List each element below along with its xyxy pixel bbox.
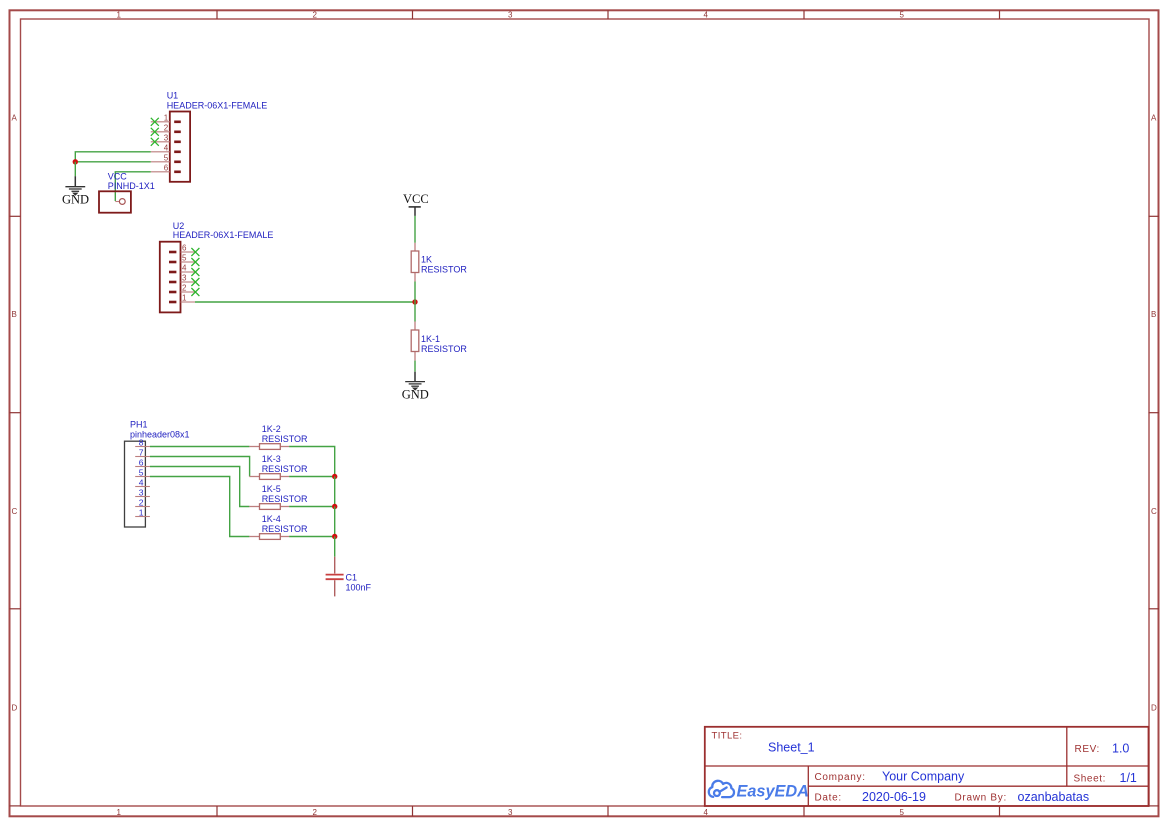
svg-text:3: 3 <box>139 487 144 497</box>
svg-text:HEADER-06X1-FEMALE: HEADER-06X1-FEMALE <box>167 101 268 111</box>
title block frame <box>705 727 1149 806</box>
svg-text:pinheader08x1: pinheader08x1 <box>130 430 190 440</box>
svg-text:1: 1 <box>117 11 122 20</box>
svg-text:5: 5 <box>139 467 144 477</box>
svg-text:B: B <box>1151 310 1156 319</box>
svg-text:Date:: Date: <box>815 792 842 803</box>
1K-5 label <box>262 484 308 504</box>
1K-2 label <box>262 424 308 444</box>
svg-text:D: D <box>1151 704 1157 713</box>
svg-text:1: 1 <box>117 808 122 817</box>
svg-text:RESISTOR: RESISTOR <box>262 524 308 534</box>
svg-text:5: 5 <box>164 153 169 162</box>
PH1 reference label <box>130 420 190 440</box>
svg-text:1/1: 1/1 <box>1120 771 1137 785</box>
no-connect X marks U1 pins 1-3 <box>151 118 159 146</box>
ground symbol right <box>405 372 425 391</box>
1K-3 label <box>262 454 308 474</box>
wire resistor 1K-4 to bus <box>289 536 335 538</box>
no-connect X marks U2 pins 2-6 <box>191 248 199 296</box>
svg-text:HEADER-06X1-FEMALE: HEADER-06X1-FEMALE <box>173 230 274 240</box>
svg-text:EasyEDA: EasyEDA <box>737 783 809 801</box>
connector U1 HEADER-06X1-FEMALE <box>151 112 190 182</box>
connector PH1 pinheader08x1 <box>125 437 150 527</box>
svg-text:U1: U1 <box>167 91 179 101</box>
svg-text:Drawn By:: Drawn By: <box>955 792 1007 803</box>
svg-text:1K-1: 1K-1 <box>421 334 440 344</box>
svg-text:Sheet:: Sheet: <box>1074 774 1107 785</box>
C1 label <box>346 573 372 593</box>
svg-text:C: C <box>12 507 18 516</box>
svg-text:A: A <box>1151 114 1157 123</box>
junction divider node <box>412 299 417 304</box>
svg-text:Sheet_1: Sheet_1 <box>768 741 815 755</box>
wire GND node down <box>74 162 76 176</box>
wire bus segment 1 <box>334 477 336 507</box>
wire resistor 1K-2 to bus top <box>289 447 335 477</box>
wire resistor 1K-5 to bus <box>289 506 335 508</box>
junction bus node 3 <box>332 534 337 539</box>
svg-text:TITLE:: TITLE: <box>712 731 743 742</box>
svg-text:1K-3: 1K-3 <box>262 454 281 464</box>
wire bus to capacitor C1 <box>334 537 336 557</box>
svg-text:REV:: REV: <box>1075 744 1100 755</box>
wire resistor 1K to divider node <box>414 282 416 303</box>
wire resistor 1K-1 to ground <box>414 361 416 372</box>
svg-text:1K-2: 1K-2 <box>262 424 281 434</box>
resistor 1K <box>411 243 419 282</box>
svg-text:6: 6 <box>182 244 187 253</box>
wire bus segment 2 <box>334 507 336 537</box>
resistor 1K-4 <box>249 534 289 540</box>
wire U1 pin5 to GND node <box>75 161 151 163</box>
wire PH1 pin7 to resistor 1K-3 <box>150 457 250 477</box>
svg-text:GND: GND <box>402 388 429 402</box>
resistor 1K-5 <box>249 504 289 510</box>
svg-text:1K: 1K <box>421 255 432 265</box>
svg-text:1K-5: 1K-5 <box>262 484 281 494</box>
svg-text:2: 2 <box>139 497 144 507</box>
svg-text:RESISTOR: RESISTOR <box>262 494 308 504</box>
svg-text:5: 5 <box>900 808 905 817</box>
svg-text:1: 1 <box>182 294 187 303</box>
wire resistor 1K-3 to bus <box>289 476 335 478</box>
resistor 1K-2 <box>249 444 289 450</box>
VCC PINHD-1X1 label <box>108 172 155 192</box>
resistor 1K-1 <box>411 322 419 361</box>
svg-text:1: 1 <box>139 507 144 517</box>
wire PH1 pin6 to resistor 1K-5 <box>150 467 250 507</box>
svg-text:C1: C1 <box>346 573 358 583</box>
wire U1 pin6 down to VCC pin header <box>115 172 151 201</box>
svg-text:VCC: VCC <box>108 172 128 182</box>
wire PH1 pin8 to resistor 1K-2 <box>150 446 250 448</box>
wire PH1 pin5 to resistor 1K-4 <box>150 477 250 537</box>
svg-text:PINHD-1X1: PINHD-1X1 <box>108 181 155 191</box>
wire divider node to resistor 1K-1 <box>414 302 416 322</box>
svg-text:5: 5 <box>900 11 905 20</box>
svg-text:2: 2 <box>313 11 318 20</box>
svg-text:2020-06-19: 2020-06-19 <box>862 790 926 804</box>
svg-text:6: 6 <box>139 457 144 467</box>
svg-text:3: 3 <box>508 11 513 20</box>
svg-text:VCC: VCC <box>403 192 429 206</box>
svg-text:1.0: 1.0 <box>1112 742 1129 756</box>
svg-text:4: 4 <box>182 264 187 273</box>
svg-text:C: C <box>1151 507 1157 516</box>
svg-text:D: D <box>12 704 18 713</box>
svg-text:4: 4 <box>164 143 169 152</box>
wire VCC to resistor 1K <box>414 216 416 243</box>
junction at GND node <box>73 159 78 164</box>
EasyEDA logo cloud icon <box>709 781 734 797</box>
svg-text:6: 6 <box>164 163 169 172</box>
U2 reference label <box>173 221 274 240</box>
svg-text:2: 2 <box>313 808 318 817</box>
svg-text:RESISTOR: RESISTOR <box>262 434 308 444</box>
svg-text:B: B <box>12 310 17 319</box>
svg-text:4: 4 <box>704 808 709 817</box>
svg-text:GND: GND <box>62 193 89 207</box>
svg-text:5: 5 <box>182 254 187 263</box>
svg-text:1: 1 <box>164 113 169 122</box>
junction bus node 2 <box>332 504 337 509</box>
1K-1 label <box>421 334 467 354</box>
wire U1 pin4 to GND node <box>75 152 151 162</box>
svg-text:RESISTOR: RESISTOR <box>421 344 467 354</box>
svg-text:Company:: Company: <box>815 772 866 783</box>
svg-text:3: 3 <box>508 808 513 817</box>
svg-text:4: 4 <box>139 477 144 487</box>
1K label <box>421 255 467 275</box>
wire U2 pin1 to divider node <box>195 301 415 303</box>
svg-text:PH1: PH1 <box>130 420 148 430</box>
VCC power symbol <box>409 207 421 216</box>
svg-text:4: 4 <box>704 11 709 20</box>
svg-text:3: 3 <box>182 274 187 283</box>
svg-text:7: 7 <box>139 447 144 457</box>
svg-text:2: 2 <box>182 284 187 293</box>
capacitor C1 <box>326 557 344 597</box>
svg-text:A: A <box>12 114 18 123</box>
resistor 1K-3 <box>249 474 289 480</box>
svg-text:3: 3 <box>164 133 169 142</box>
svg-text:ozanbabatas: ozanbabatas <box>1018 790 1090 804</box>
svg-text:1K-4: 1K-4 <box>262 514 281 524</box>
U1 reference label <box>167 91 268 111</box>
connector VCC PINHD-1X1 <box>99 191 131 212</box>
connector U2 HEADER-06X1-FEMALE <box>160 242 195 313</box>
svg-text:2: 2 <box>164 123 169 132</box>
junction bus node 1 <box>332 474 337 479</box>
svg-text:RESISTOR: RESISTOR <box>421 265 467 275</box>
1K-4 label <box>262 514 308 534</box>
svg-text:100nF: 100nF <box>346 583 372 593</box>
svg-text:RESISTOR: RESISTOR <box>262 464 308 474</box>
ground symbol left <box>65 176 85 195</box>
svg-text:Your Company: Your Company <box>882 769 965 783</box>
